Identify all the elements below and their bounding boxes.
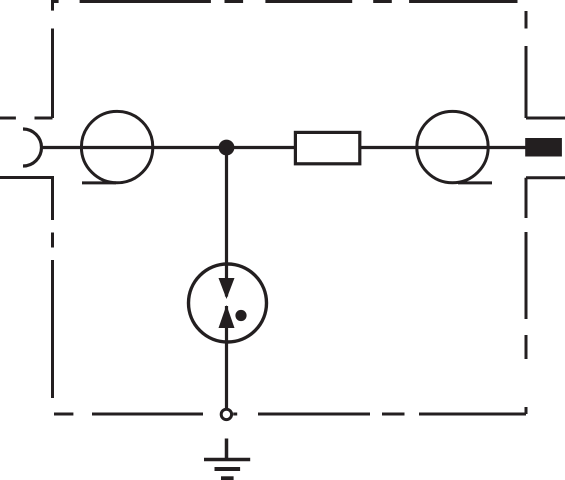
ground symbol stem xyxy=(225,439,229,460)
border bottom-right corner stub xyxy=(525,407,528,414)
border top dashed line xyxy=(53,0,518,3)
earth terminal (open circle) xyxy=(221,409,231,419)
border left upper vertical xyxy=(51,29,54,119)
connector X1 input socket arc xyxy=(23,129,41,166)
isolating device E1 bottom tangent line xyxy=(82,181,116,184)
wire input to resistor xyxy=(42,146,296,149)
border left notch bottom line xyxy=(0,176,54,179)
connector X2 output plug (filled) xyxy=(525,138,562,157)
border right notch top line xyxy=(526,117,565,120)
isolating device E2 circle xyxy=(417,111,488,182)
border top-left corner stub xyxy=(51,0,54,11)
ground symbol bar 1 xyxy=(204,458,250,462)
gas discharge tube F1 upper electrode arrow xyxy=(219,278,235,299)
wire junction down to arrester xyxy=(225,148,228,297)
border bottom dashed line xyxy=(54,413,526,416)
border right lower vertical dash-dot xyxy=(525,178,528,359)
wire resistor to output xyxy=(361,146,527,149)
isolating device E1 circle xyxy=(81,111,152,182)
ground symbol bar 2 xyxy=(215,467,241,471)
border left notch top dashed line xyxy=(0,117,53,120)
gas discharge tube F1 gas-filled dot xyxy=(235,310,246,321)
border right notch bottom line xyxy=(526,176,565,179)
gas discharge tube F1 circle xyxy=(189,264,267,342)
border left lower vertical dash-dot xyxy=(51,176,54,398)
gas discharge tube F1 lower electrode arrow xyxy=(219,305,235,328)
wire arrester down to earth terminal xyxy=(225,306,228,408)
border right upper vertical xyxy=(525,11,528,118)
resistor R1 xyxy=(295,132,359,163)
node junction dot xyxy=(219,140,235,156)
ground symbol bar 3 xyxy=(221,476,234,480)
isolating device E2 bottom tangent line xyxy=(458,181,492,184)
